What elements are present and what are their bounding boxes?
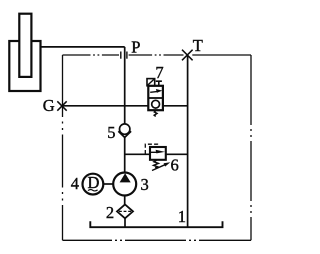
check valve V5 ball xyxy=(120,124,130,134)
wire node to pump xyxy=(124,137,126,172)
relief valve U6 spring xyxy=(154,160,159,168)
pump P3 circle xyxy=(113,173,136,196)
svg-text:T: T xyxy=(193,36,203,55)
relief valve U6 adjust arrow xyxy=(152,165,165,171)
svg-text:G: G xyxy=(43,96,55,115)
enclosure chain line left edge xyxy=(62,55,64,240)
svg-text:P: P xyxy=(131,37,140,56)
cylinder rod xyxy=(19,14,31,77)
enclosure chain line bottom edge xyxy=(63,239,252,241)
valve U7 top-right T mark xyxy=(156,81,162,86)
motor M4 tilde xyxy=(88,189,98,190)
svg-text:D: D xyxy=(88,173,100,192)
svg-text:2: 2 xyxy=(106,203,114,222)
relief valve U6 pilot dashed line xyxy=(145,144,157,154)
wire cylinder to P corner xyxy=(41,46,125,48)
wire pump line to relief valve xyxy=(125,153,150,155)
relief valve U6 internal arrow head xyxy=(156,150,165,154)
tank T1 xyxy=(90,221,222,227)
wire filter to tank xyxy=(124,218,126,228)
valve U7 solenoid box xyxy=(147,79,155,86)
port G X mark xyxy=(57,101,66,110)
wire T vertical line xyxy=(187,55,189,228)
port P tick right xyxy=(126,52,128,59)
check valve V5 seat xyxy=(118,131,131,137)
wire motor to pump shaft xyxy=(103,183,113,185)
valve U7 body xyxy=(148,86,163,110)
pump P3 triangle xyxy=(120,173,131,182)
relief valve U6 body xyxy=(150,147,166,160)
filter F2 internal dashes xyxy=(119,210,131,212)
wire G line left segment xyxy=(63,105,149,107)
svg-text:5: 5 xyxy=(107,123,115,142)
wire pump to filter xyxy=(124,196,126,205)
cylinder body xyxy=(9,41,40,91)
valve U7 circle xyxy=(152,100,160,108)
valve U7 arrow tail xyxy=(150,90,158,93)
port P tick left xyxy=(120,52,122,59)
motor M4 circle xyxy=(83,174,104,195)
valve U7 spring xyxy=(154,111,157,117)
relief valve U6 internal flow line xyxy=(151,151,158,153)
svg-text:1: 1 xyxy=(178,207,186,226)
svg-text:6: 6 xyxy=(171,156,179,175)
wire P vertical down to node xyxy=(124,47,126,124)
svg-text:3: 3 xyxy=(141,175,149,194)
enclosure chain line top left segment xyxy=(63,54,120,56)
wire G line right segment xyxy=(163,105,188,107)
port T X mark xyxy=(182,50,193,61)
svg-text:7: 7 xyxy=(155,63,163,82)
enclosure chain line top right segment xyxy=(129,54,251,56)
wire relief valve to T line xyxy=(166,153,188,155)
valve U7 solenoid diagonal xyxy=(147,79,155,86)
svg-text:4: 4 xyxy=(71,174,79,193)
enclosure chain line right edge xyxy=(250,55,252,240)
valve U7 divider xyxy=(148,97,163,99)
valve U7 arrow head xyxy=(156,89,163,93)
filter F2 diamond xyxy=(117,205,133,219)
